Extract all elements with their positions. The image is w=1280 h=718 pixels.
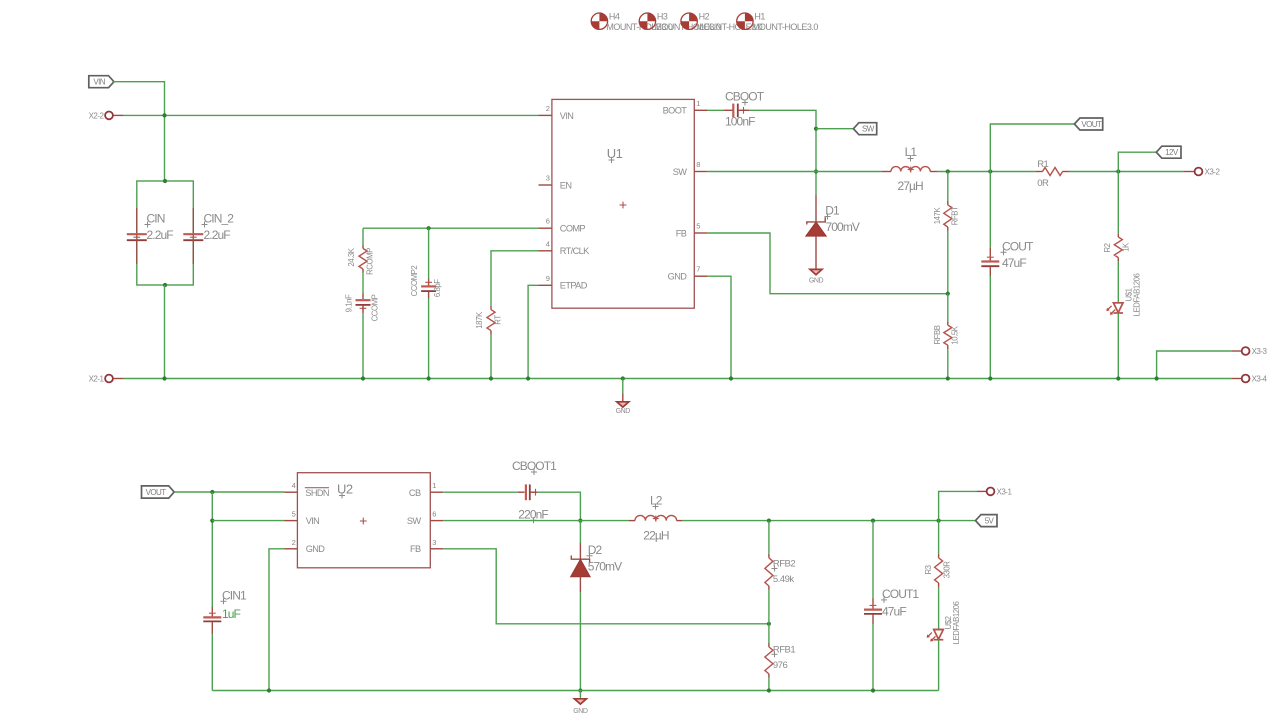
svg-text:R1: R1	[1037, 159, 1048, 170]
svg-text:1: 1	[432, 481, 436, 490]
junction 12V/R2	[1116, 169, 1120, 173]
svg-text:RFB1: RFB1	[773, 644, 796, 655]
net flag 12V	[1156, 146, 1181, 158]
capacitor CIN1 1uF	[203, 588, 247, 690]
IC U2 body	[297, 473, 430, 568]
resistor RCOMP 24.3K	[347, 247, 375, 275]
junction COUT GND rail	[988, 376, 992, 380]
U2 pin 3 FB	[410, 538, 443, 554]
U1 pin 7 GND	[668, 265, 708, 282]
svg-text:7: 7	[696, 265, 700, 274]
svg-text:CIN: CIN	[147, 212, 165, 226]
junction CIN bottom	[163, 283, 167, 287]
junction CCOMP2 GND rail	[427, 376, 431, 380]
wire RT/CLK net	[491, 251, 539, 310]
junction X3-3 branch on rail	[1155, 376, 1159, 380]
wire to VOUT flag	[990, 124, 1074, 172]
svg-text:RT: RT	[493, 315, 502, 325]
resistor RFB1 976	[765, 624, 796, 691]
wire U2 GND pin net	[269, 549, 285, 691]
svg-text:LEDFAB1206: LEDFAB1206	[1133, 274, 1142, 317]
junction FB divider (lower)	[767, 622, 771, 626]
capacitor CIN_2	[183, 208, 234, 264]
capacitor bank loop wire (CIN/CIN_2)	[137, 181, 194, 285]
svg-text:700mV: 700mV	[826, 220, 860, 234]
svg-text:5.49k: 5.49k	[773, 574, 794, 585]
svg-text:330R: 330R	[942, 561, 951, 579]
wire CCOMP2 to GND rail	[428, 292, 430, 379]
svg-text:12V: 12V	[1165, 148, 1179, 157]
svg-text:GND: GND	[809, 277, 824, 284]
svg-text:4: 4	[292, 481, 296, 490]
LED U$2 LEDFAB1206	[927, 602, 961, 691]
mounting hole H4 MOUNT-HOLE3.0	[591, 12, 673, 33]
connector pin X2-1	[89, 375, 123, 384]
op IC U1 body	[552, 99, 694, 308]
svg-text:GND: GND	[616, 408, 631, 415]
junction ETPAD GND rail	[526, 376, 530, 380]
capacitor CCOMP2 6.8pF	[410, 266, 442, 298]
capacitor COUT 47uF	[981, 172, 1034, 379]
resistor RFBT 147K	[933, 172, 960, 294]
svg-text:SW: SW	[407, 516, 422, 526]
wire CB net left	[443, 491, 524, 493]
svg-text:2: 2	[292, 538, 296, 547]
wire X3-3 branch	[1157, 351, 1232, 379]
U2 pin 6 SW	[407, 510, 443, 526]
mounting hole H1 MOUNT-HOLE3.0	[737, 12, 819, 33]
junction GND rail at CIN	[162, 376, 166, 380]
svg-text:9.1nF: 9.1nF	[345, 294, 354, 312]
wire FB net	[708, 233, 948, 294]
ground symbol GND (lower)	[573, 691, 588, 715]
wire VOUT vertical branch	[211, 492, 213, 607]
wire GND bottom rail	[123, 378, 1232, 380]
junction COUT1 top	[871, 519, 875, 523]
svg-text:LEDFAB1206: LEDFAB1206	[952, 602, 961, 645]
svg-text:2: 2	[546, 104, 550, 113]
U1 pin 2 VIN	[539, 104, 574, 121]
junction CIN top	[163, 179, 167, 183]
svg-text:COUT1: COUT1	[882, 587, 919, 601]
connector pin X2-2	[89, 111, 123, 120]
svg-text:RCOMP: RCOMP	[365, 248, 374, 275]
svg-text:CB: CB	[409, 488, 421, 498]
svg-text:X3-1: X3-1	[997, 487, 1013, 496]
junction SW flag	[814, 127, 818, 131]
svg-text:H4: H4	[609, 12, 620, 22]
U1 pin 4 RT/CLK	[539, 239, 591, 256]
svg-text:27µH: 27µH	[898, 179, 924, 193]
svg-text:CIN1: CIN1	[222, 588, 247, 602]
wire SW rail from U1	[708, 171, 882, 173]
svg-text:10.5K: 10.5K	[951, 325, 960, 344]
LED U$1 LEDFAB1206	[1106, 274, 1141, 379]
svg-text:R2: R2	[1103, 243, 1112, 252]
svg-text:H1: H1	[754, 12, 765, 22]
svg-text:6: 6	[546, 217, 550, 226]
junction U2 VIN tap	[210, 519, 214, 523]
svg-text:2.2uF: 2.2uF	[147, 228, 174, 242]
capacitor CCOMP 9.1nF	[345, 294, 380, 321]
U1 pin 9 ETPAD	[539, 274, 588, 291]
ground symbol GND (under D1)	[809, 269, 824, 284]
svg-text:6.8pF: 6.8pF	[433, 279, 442, 297]
wire BOOT net right to SW flag branch	[738, 110, 816, 195]
inductor L2 22uH	[629, 494, 682, 543]
svg-text:5: 5	[696, 222, 700, 231]
svg-text:9: 9	[546, 274, 550, 283]
svg-text:FB: FB	[676, 228, 687, 238]
wire CCOMP to GND rail	[362, 305, 364, 379]
capacitor CIN	[127, 208, 173, 264]
junction R3 top / 5V	[937, 519, 941, 523]
svg-text:VIN: VIN	[93, 78, 105, 87]
svg-text:SHDN: SHDN	[305, 488, 329, 498]
junction D2/CB on SW rail	[578, 519, 582, 523]
junction GND symbol tap	[621, 376, 625, 380]
wire SW rail to X3-2	[1069, 171, 1184, 173]
resistor R3 330R	[924, 521, 951, 630]
wire BOOT net left	[708, 109, 733, 111]
svg-text:SW: SW	[673, 167, 688, 177]
svg-text:CCOMP2: CCOMP2	[410, 266, 419, 297]
svg-text:47uF: 47uF	[1002, 256, 1026, 270]
net flag VOUT	[1074, 118, 1102, 130]
svg-text:47uF: 47uF	[882, 605, 906, 619]
svg-text:COMP: COMP	[560, 224, 586, 234]
svg-text:U2: U2	[337, 482, 353, 497]
wire RCOMP to CCOMP	[362, 269, 364, 299]
svg-text:147K: 147K	[933, 207, 942, 225]
svg-text:3: 3	[546, 174, 550, 183]
svg-text:VIN: VIN	[306, 516, 320, 526]
svg-text:100nF: 100nF	[725, 115, 755, 129]
junction VOUT branch	[210, 490, 214, 494]
svg-text:RFBB: RFBB	[933, 325, 942, 344]
svg-text:U1: U1	[607, 146, 623, 161]
junction FB divider	[946, 292, 950, 296]
resistor RFBB 10.5K	[933, 294, 960, 379]
capacitor CBOOT 100nF	[725, 90, 765, 129]
svg-text:FB: FB	[410, 544, 421, 554]
svg-text:6: 6	[432, 510, 436, 519]
wire to 12V flag	[1118, 152, 1156, 171]
svg-text:SW: SW	[862, 125, 875, 134]
svg-text:GND: GND	[573, 708, 588, 715]
U2 pin 2 GND	[285, 538, 326, 554]
junction RFBT top	[946, 169, 950, 173]
connector pin X3-4	[1232, 375, 1268, 384]
svg-text:X3-2: X3-2	[1205, 168, 1221, 177]
junction D2 GND rail	[578, 688, 582, 692]
svg-text:976: 976	[773, 660, 788, 671]
wire VIN flag to rail	[112, 82, 164, 181]
wire X3-1 branch	[939, 491, 977, 520]
U1 pin 6 COMP	[539, 217, 586, 234]
wire RT to GND rail	[490, 331, 492, 379]
svg-text:5V: 5V	[985, 516, 995, 525]
svg-text:X2-2: X2-2	[89, 111, 105, 120]
wire RCOMP top lead	[362, 228, 364, 248]
connector pin X3-3	[1232, 347, 1268, 356]
net flag VOUT (lower)	[142, 486, 175, 498]
svg-text:4: 4	[546, 239, 550, 248]
svg-text:EN: EN	[560, 180, 572, 190]
net flag SW	[853, 123, 876, 135]
U1 pin 3 EN	[539, 174, 572, 191]
net flag VIN	[89, 76, 114, 88]
svg-text:5: 5	[292, 510, 296, 519]
U1 pin 8 SW	[673, 160, 708, 177]
svg-text:8: 8	[696, 160, 700, 169]
svg-text:H3: H3	[657, 12, 668, 22]
svg-text:22µH: 22µH	[643, 529, 669, 543]
junction COMP at CCOMP2	[427, 226, 431, 230]
mounting hole H2 MOUNT-HOLE3.0	[681, 12, 763, 33]
wire D2 anode to GND rail	[579, 592, 581, 690]
svg-text:570mV: 570mV	[588, 559, 622, 573]
wire CB net right to SW rail	[530, 492, 580, 520]
svg-text:187K: 187K	[475, 311, 484, 329]
wire FB net (lower)	[443, 549, 769, 624]
svg-text:MOUNT-HOLE3.0: MOUNT-HOLE3.0	[752, 22, 819, 32]
U1 pin 5 FB	[676, 222, 708, 239]
ground symbol GND (top)	[616, 379, 631, 415]
diode D1 zener 700mV	[806, 195, 860, 269]
wire ETPAD net	[528, 285, 538, 378]
svg-text:1K: 1K	[1121, 242, 1130, 252]
capacitor CBOOT1 220nF	[512, 459, 557, 523]
svg-text:L2: L2	[650, 494, 663, 508]
svg-text:1: 1	[696, 99, 700, 108]
svg-text:VOUT: VOUT	[146, 488, 167, 497]
svg-text:2.2uF: 2.2uF	[204, 228, 231, 242]
svg-text:0R: 0R	[1037, 178, 1049, 189]
U2 pin 1 CB	[409, 481, 443, 498]
junction RFB2 top	[767, 519, 771, 523]
junction COUT1 GND rail	[871, 688, 875, 692]
junction LED GND rail	[1116, 376, 1120, 380]
junction RFBB GND rail	[946, 376, 950, 380]
junction VIN rail	[162, 113, 166, 117]
wire VIN rail	[123, 114, 539, 116]
wire lower GND rail	[212, 690, 938, 692]
resistor R1 0R	[1036, 159, 1069, 189]
junction RT GND rail	[489, 376, 493, 380]
junction CCOMP GND rail	[361, 376, 365, 380]
svg-text:3: 3	[432, 538, 436, 547]
junction U1 GND rail	[729, 376, 733, 380]
wire CIN bottom to GND rail	[164, 285, 166, 379]
svg-text:RFB2: RFB2	[773, 559, 796, 570]
svg-text:GND: GND	[306, 544, 326, 554]
inductor L1 27uH	[882, 145, 937, 193]
U1 pin 1 BOOT	[663, 99, 708, 116]
resistor R2 1K	[1103, 172, 1130, 303]
svg-text:CCOMP: CCOMP	[370, 294, 379, 321]
U2 origin cross	[360, 518, 367, 525]
svg-text:H2: H2	[699, 12, 710, 22]
svg-text:X3-4: X3-4	[1252, 375, 1268, 384]
svg-text:X2-1: X2-1	[89, 375, 105, 384]
svg-text:COUT: COUT	[1002, 239, 1034, 253]
wire U2 SW rail	[443, 520, 629, 522]
svg-text:RFBT: RFBT	[951, 206, 960, 225]
diode D2 zener 570mV	[571, 521, 622, 593]
U2 pin 5 VIN	[285, 510, 320, 526]
junction SW rail at D1	[814, 169, 818, 173]
U1 origin cross	[620, 202, 627, 209]
svg-text:VIN: VIN	[560, 111, 574, 121]
resistor RT 187K	[475, 310, 502, 331]
svg-text:1uF: 1uF	[222, 607, 241, 621]
resistor RFB2 5.49k	[765, 521, 796, 624]
svg-text:CIN_2: CIN_2	[204, 212, 235, 226]
svg-text:ETPAD: ETPAD	[560, 281, 588, 291]
junction VOUT/COUT	[988, 169, 992, 173]
connector pin X3-1	[977, 487, 1012, 496]
svg-text:GND: GND	[668, 272, 688, 282]
svg-text:VOUT: VOUT	[1081, 120, 1102, 129]
junction RFB1 GND rail	[767, 688, 771, 692]
wire CCOMP2 branch	[428, 228, 430, 285]
wire SW rail after L1	[937, 171, 1036, 173]
net flag 5V	[976, 515, 998, 527]
svg-text:X3-3: X3-3	[1252, 347, 1268, 356]
wire to SW flag	[816, 128, 853, 130]
U2 pin 4 SHDN	[285, 481, 330, 498]
mounting hole H3 MOUNT-HOLE3.0	[639, 12, 721, 33]
svg-text:R3: R3	[924, 565, 933, 574]
wire COMP net	[363, 227, 539, 229]
capacitor COUT1 47uF	[864, 521, 919, 691]
wire U2 VIN net	[212, 520, 284, 522]
svg-text:RT/CLK: RT/CLK	[560, 246, 590, 256]
wire VOUT to U2 SHDN	[174, 491, 284, 493]
svg-text:BOOT: BOOT	[663, 106, 688, 116]
svg-text:24.3K: 24.3K	[347, 247, 356, 266]
junction U2 GND rail	[267, 688, 271, 692]
svg-text:CBOOT1: CBOOT1	[512, 459, 557, 473]
wire SW rail after L2	[682, 520, 975, 522]
connector pin X3-2	[1184, 168, 1220, 177]
wire U1 GND pin net	[708, 276, 731, 378]
